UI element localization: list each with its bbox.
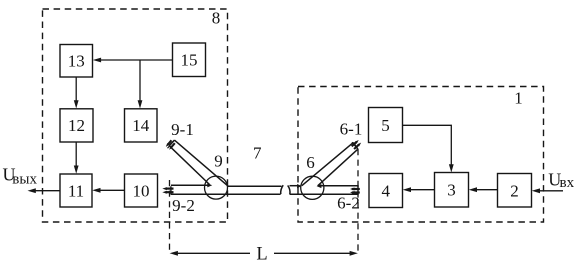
- svg-text:5: 5: [381, 116, 390, 135]
- svg-text:6-2: 6-2: [337, 194, 360, 213]
- svg-text:1: 1: [514, 89, 523, 108]
- svg-text:7: 7: [253, 144, 262, 163]
- svg-text:4: 4: [382, 181, 391, 200]
- svg-text:13: 13: [68, 52, 85, 71]
- svg-text:6-1: 6-1: [340, 120, 363, 139]
- svg-text:L: L: [256, 245, 267, 265]
- svg-text:2: 2: [510, 181, 519, 200]
- svg-text:9: 9: [214, 152, 223, 171]
- svg-text:9-1: 9-1: [171, 120, 194, 139]
- svg-text:11: 11: [68, 181, 84, 200]
- svg-text:вх: вх: [560, 175, 575, 191]
- svg-text:10: 10: [133, 181, 150, 200]
- svg-text:14: 14: [132, 116, 150, 135]
- svg-text:вых: вых: [12, 172, 37, 188]
- svg-text:3: 3: [447, 181, 456, 200]
- svg-text:6: 6: [306, 153, 315, 172]
- svg-text:15: 15: [181, 51, 198, 70]
- svg-text:8: 8: [212, 9, 221, 28]
- svg-text:12: 12: [68, 116, 85, 135]
- svg-text:9-2: 9-2: [172, 196, 195, 215]
